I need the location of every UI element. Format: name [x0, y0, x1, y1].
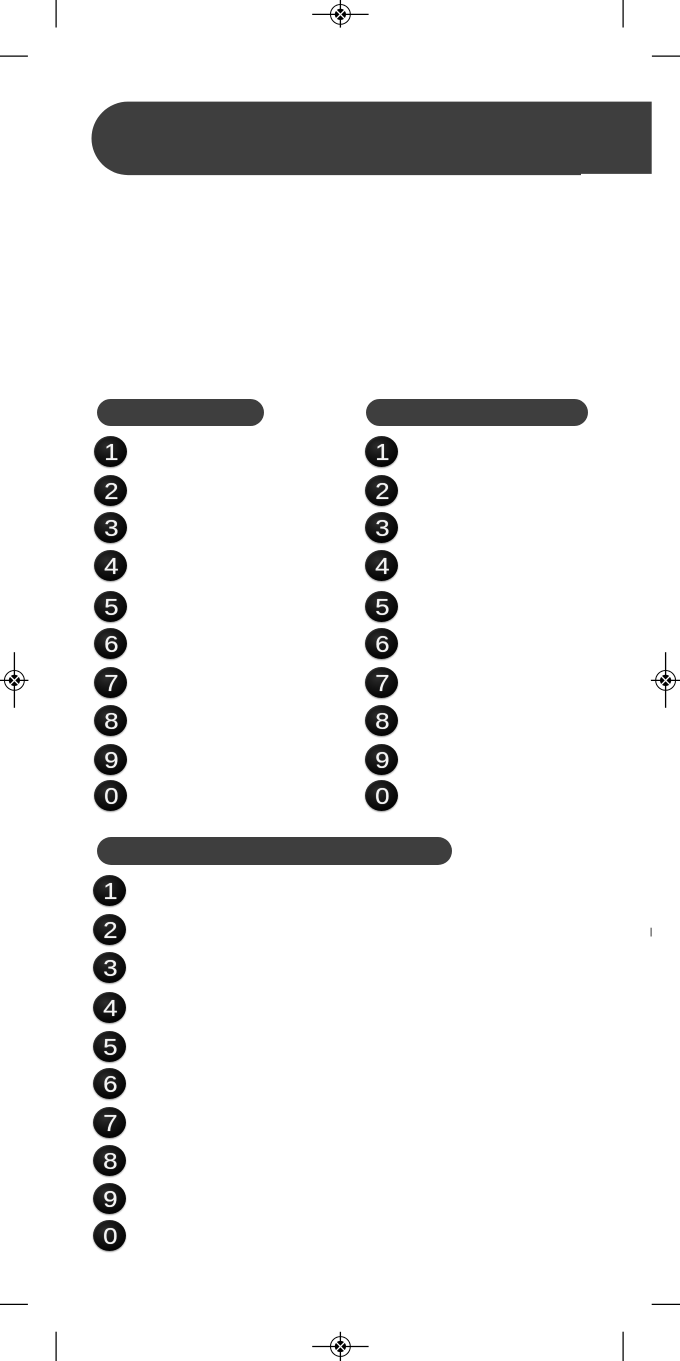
section 3 key button 8 — [93, 1145, 126, 1176]
crop mark top-right horizontal — [652, 55, 680, 57]
section 1 key button 8 — [94, 705, 127, 736]
section 1 key button 2 — [94, 475, 127, 506]
section 2 key button 0 — [365, 780, 398, 811]
section 3 header pill — [97, 837, 453, 865]
section 3 key button 9 — [93, 1183, 126, 1214]
section 2 key button 4 — [365, 550, 398, 581]
section 1 key button 5 — [94, 591, 127, 622]
crop mark bottom-left vertical — [55, 1332, 57, 1361]
section 1 key button 3 — [94, 512, 127, 543]
registration mark top center — [312, 0, 368, 28]
registration mark bottom center — [312, 1332, 368, 1361]
section 1 key button 6 — [94, 628, 127, 659]
section 3 key button 3 — [93, 952, 126, 983]
section 3 key button 2 — [93, 914, 126, 945]
section 3 key button 1 — [93, 875, 126, 906]
section 3 key button 4 — [93, 992, 126, 1023]
registration mark right center — [651, 652, 680, 708]
section 1 key button 4 — [94, 550, 127, 581]
section 3 key button 6 — [93, 1068, 126, 1099]
crop mark bottom-right vertical — [622, 1332, 624, 1361]
section 2 key button 1 — [365, 436, 398, 467]
section 2 key button 6 — [365, 628, 398, 659]
section 1 key button 7 — [94, 667, 127, 698]
section 2 header pill — [366, 399, 588, 426]
section 1 key button 1 — [94, 436, 127, 467]
section 3 key button 5 — [93, 1031, 126, 1062]
section 3 key button 0 — [93, 1220, 126, 1251]
section 1 header pill — [97, 399, 265, 426]
section 2 key button 5 — [365, 591, 398, 622]
crop mark bottom-left horizontal — [0, 1303, 28, 1305]
header bar (top dark rounded banner with bleed to right) — [0, 0, 680, 200]
section 2 key button 2 — [365, 475, 398, 506]
section 2 key button 9 — [365, 744, 398, 775]
crop mark bottom-right horizontal — [652, 1303, 680, 1305]
crop mark top-right vertical — [622, 0, 624, 28]
section 2 key button 8 — [365, 705, 398, 736]
crop mark top-left horizontal — [0, 55, 28, 57]
section 1 key button 9 — [94, 744, 127, 775]
section 1 key button 0 — [94, 780, 127, 811]
fold tick right side — [650, 928, 652, 937]
registration mark left center — [0, 652, 28, 708]
section 2 key button 3 — [365, 512, 398, 543]
crop mark top-left vertical — [55, 0, 57, 28]
section 2 key button 7 — [365, 667, 398, 698]
section 3 key button 7 — [93, 1107, 126, 1138]
